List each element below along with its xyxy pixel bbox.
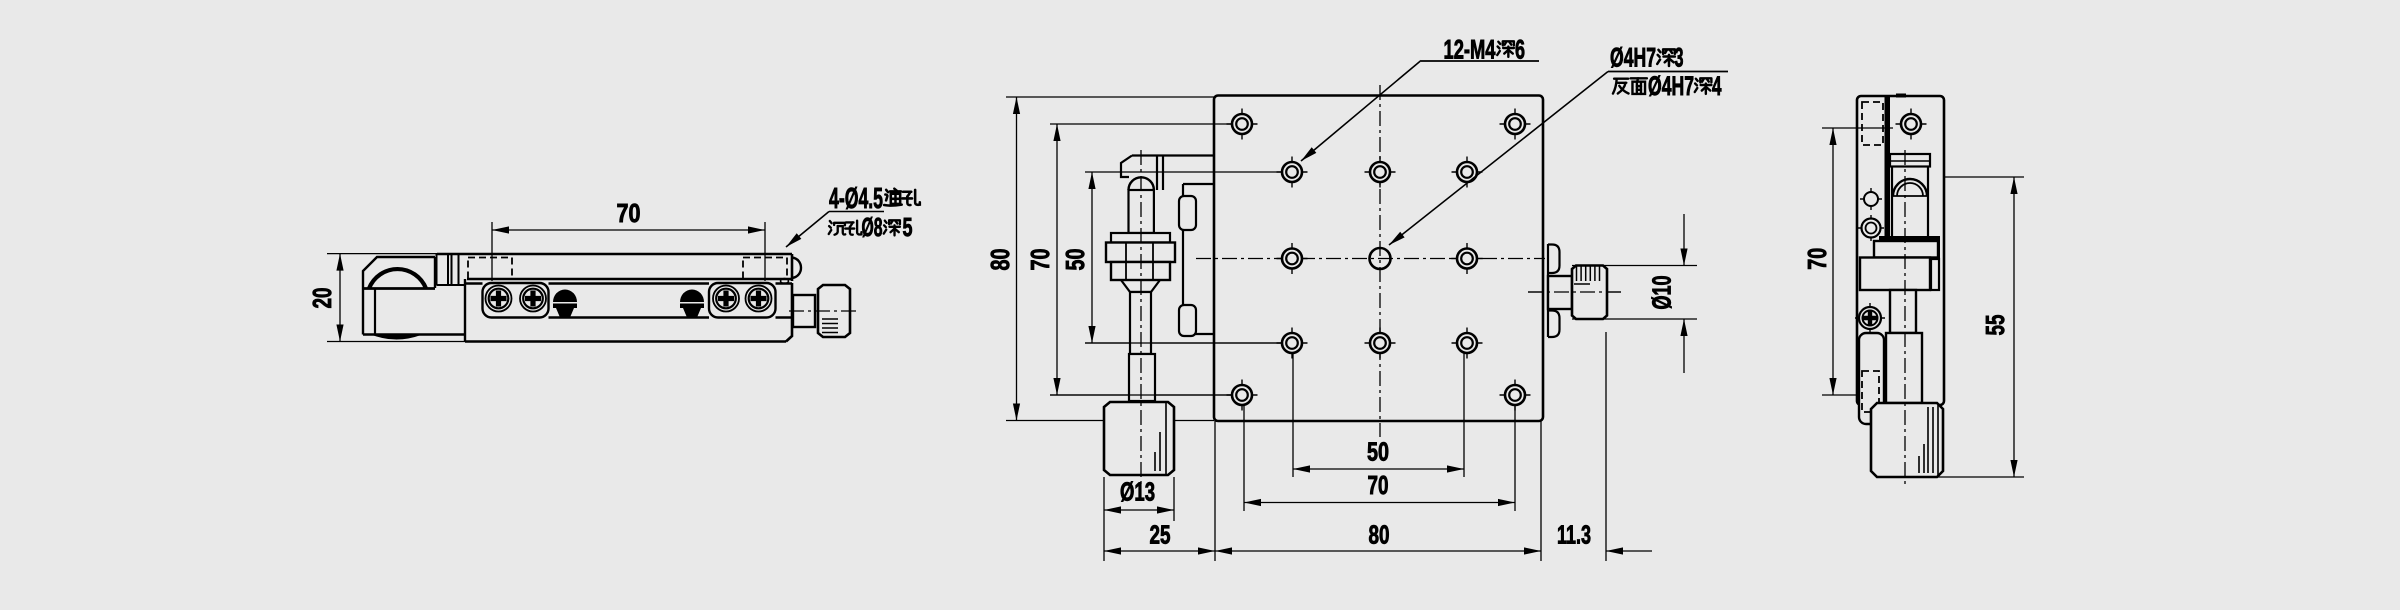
svg-text:80: 80	[987, 249, 1015, 271]
svg-text:25: 25	[1150, 522, 1171, 550]
svg-text:Ø4H7: Ø4H7	[1610, 43, 1656, 73]
svg-text:Ø8: Ø8	[862, 214, 883, 242]
svg-text:5: 5	[903, 214, 913, 242]
svg-text:70: 70	[617, 200, 641, 228]
svg-text:50: 50	[1367, 439, 1389, 467]
svg-text:4: 4	[1712, 71, 1722, 101]
svg-text:6: 6	[1515, 35, 1525, 65]
svg-text:55: 55	[1982, 315, 2010, 336]
svg-text:70: 70	[1027, 249, 1055, 271]
svg-text:70: 70	[1368, 472, 1389, 500]
svg-text:12-M4: 12-M4	[1444, 35, 1496, 65]
svg-text:Ø13: Ø13	[1120, 479, 1155, 507]
svg-text:Ø10: Ø10	[1649, 276, 1677, 310]
svg-text:11.3: 11.3	[1557, 522, 1591, 550]
svg-text:50: 50	[1062, 249, 1090, 271]
svg-text:4-Ø4.5: 4-Ø4.5	[829, 183, 883, 215]
svg-text:3: 3	[1675, 43, 1684, 73]
svg-text:Ø4H7: Ø4H7	[1648, 71, 1694, 101]
svg-text:20: 20	[309, 288, 337, 309]
svg-text:70: 70	[1804, 248, 1832, 270]
svg-text:80: 80	[1369, 522, 1390, 550]
